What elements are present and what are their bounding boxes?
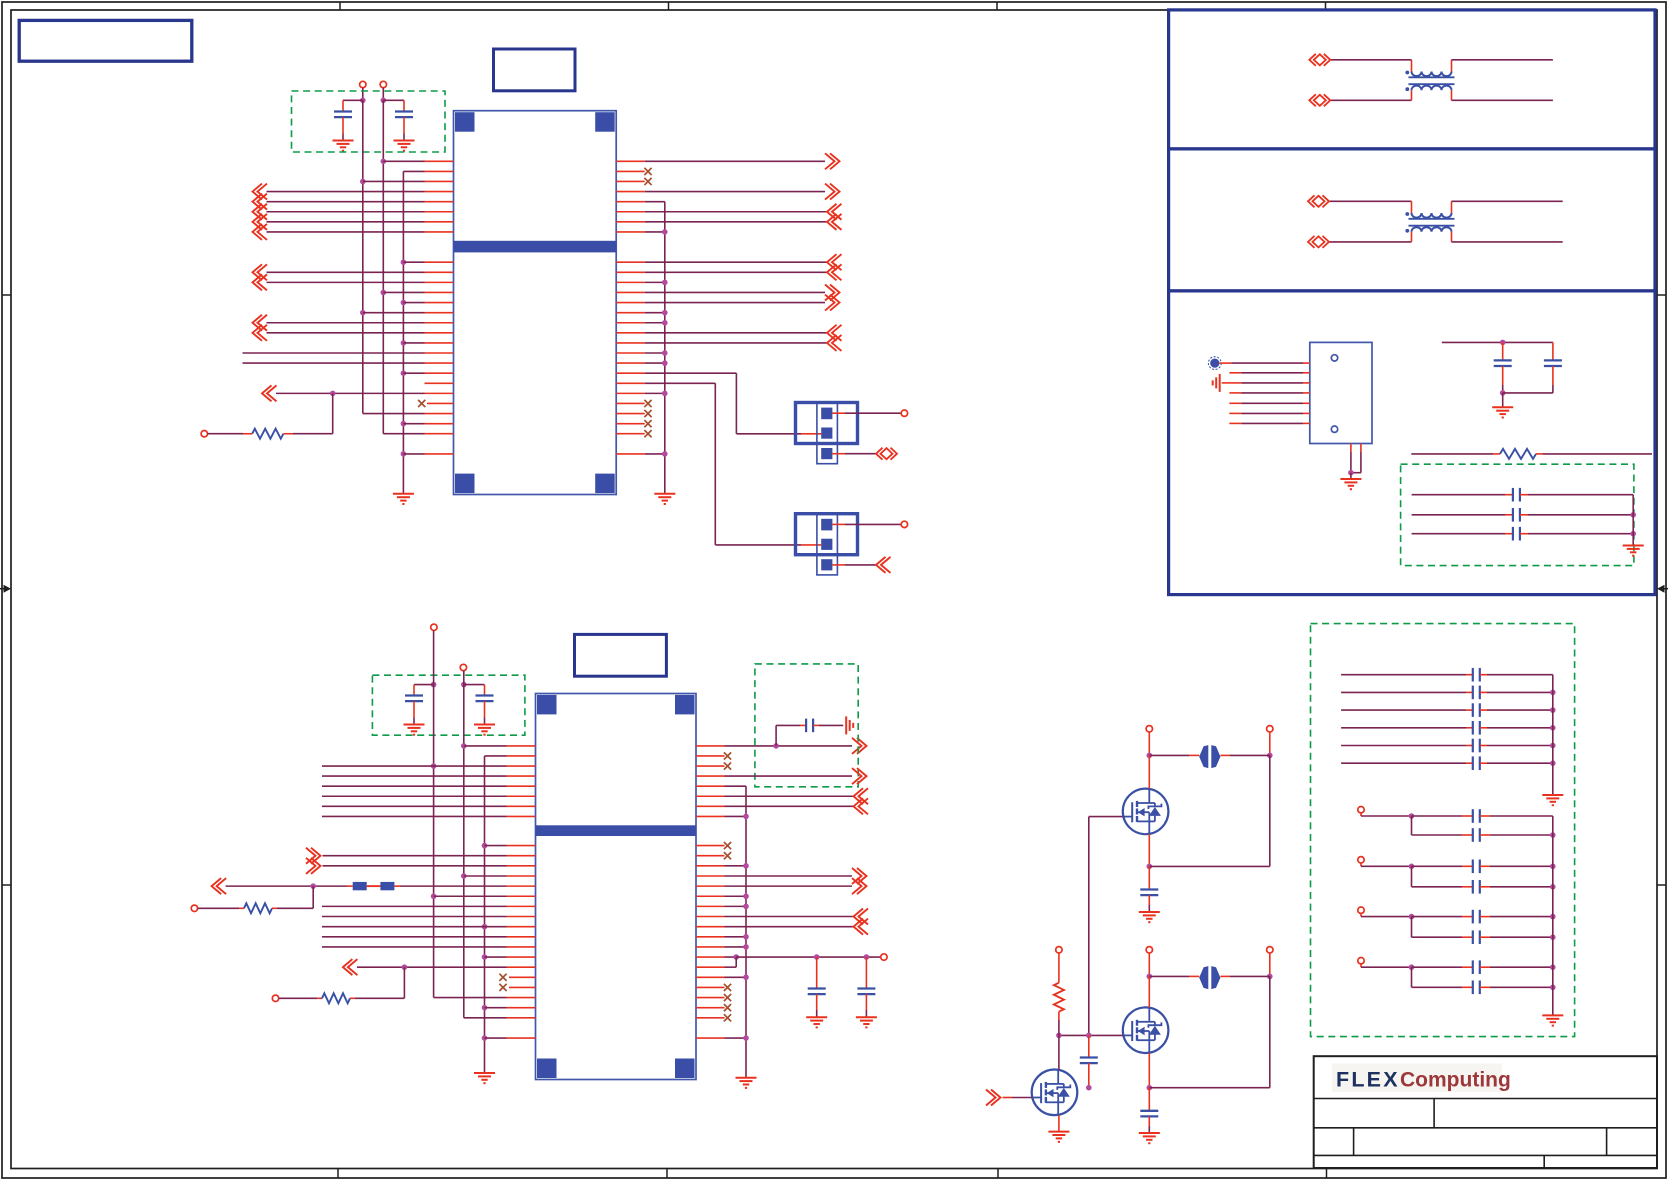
no-connect X IC2 R b15: [696, 994, 731, 1001]
port chevron IC1 L k23: [262, 385, 454, 401]
no-connect X IC2 R b1: [696, 852, 731, 859]
ground Q3: [1048, 1132, 1069, 1142]
wire b12 to resistor R3: [403, 967, 405, 998]
port chevron transformer top: [1308, 195, 1329, 207]
no-connect X IC1 R k26: [616, 420, 651, 427]
wire IC1 k21 to J1: [616, 373, 821, 434]
no-connect X IC1 R k25: [616, 410, 651, 417]
capacitor C4: [461, 682, 495, 735]
port chevron transformer bottom: [1309, 94, 1330, 106]
svg-text:Computing: Computing: [1400, 1069, 1511, 1092]
capacitor bank outline: [1311, 624, 1575, 1037]
capacitor bank series C row 1: [1341, 668, 1553, 682]
ground (IC1 left): [393, 494, 414, 504]
no-connect X IC1 L k24: [418, 400, 453, 407]
wire IC1 pin L k20: [243, 362, 454, 364]
wire IC2 pin L b0: [482, 843, 536, 849]
no-connect X IC1 R k27: [616, 430, 651, 437]
port chevron IC1 L group2 row2: [253, 274, 454, 290]
port chevron IC1 R k11: [616, 264, 841, 280]
wire Q3 source: [1058, 1115, 1060, 1132]
port chevron IC2 L b2: [306, 858, 536, 874]
no-connect X IC2 R b17: [696, 1014, 731, 1021]
border zone tick top 3: [996, 2, 998, 10]
wire bank bus 2: [1552, 816, 1554, 1015]
wire IC1 pin R k16: [616, 320, 667, 326]
no-connect X IC1 R k2: [616, 178, 651, 185]
capacitor coupling row 3: [1412, 527, 1636, 541]
border zone tick bottom 4: [1326, 1169, 1328, 1179]
port chevron IC1 L group3 row1: [253, 315, 454, 331]
wire IC2 pin L b6: [322, 905, 536, 907]
wire IC1 pin R k20: [616, 360, 667, 366]
port chevron IC1 R k17: [616, 325, 841, 341]
wire IC2 pin R b9: [696, 934, 749, 940]
wire CN1 pin row 1: [1219, 362, 1309, 364]
wire Q1 gate: [1089, 817, 1123, 1036]
port chevron IC2 R b3: [696, 868, 867, 884]
wire IC2 pin L b15: [507, 997, 536, 999]
wire IC2 pin L b10: [322, 946, 536, 948]
capacitor C2: [380, 81, 414, 150]
wire CN1 pin row 4: [1229, 392, 1309, 394]
transformer secondary winding: [1329, 227, 1563, 242]
wire IC1 pin L k2: [360, 179, 454, 185]
wire IC2 pin R m4: [696, 785, 725, 787]
border zone tick right 1: [1657, 294, 1666, 296]
no-connect X IC1 R k1: [616, 168, 651, 175]
wire IC2 R b11 net to output terminal: [696, 954, 887, 960]
port chevron IC1 R k0: [616, 153, 839, 169]
wire Q1 source loop: [1147, 755, 1270, 869]
sheet note box: [19, 20, 192, 61]
wire IC2 pin R m7: [696, 814, 749, 820]
chassis ground CN1: [1213, 374, 1230, 392]
logo FLEX Computing: [1332, 1064, 1511, 1093]
resistor R3: [272, 993, 404, 1003]
wire IC1 pin R k19: [616, 350, 667, 356]
wire bus A (IC1 left): [363, 100, 425, 413]
capacitor coupling row 2: [1412, 508, 1636, 522]
interface box 3: [1169, 291, 1655, 595]
decoupling group outline: [292, 91, 446, 152]
port chevron IC1 L group1 row4: [253, 214, 454, 230]
no-connect X IC2 R b16: [696, 1004, 731, 1011]
wire IC2 pin R b5: [696, 893, 749, 899]
port chevron IC2 R b7: [696, 909, 868, 925]
port chevron IC1 R k3: [616, 184, 839, 200]
border zone tick top 2: [668, 2, 670, 10]
capacitor C11: [1139, 1088, 1160, 1144]
capacitor bank series C row 5: [1341, 739, 1556, 753]
border zone tick left 2: [2, 884, 11, 886]
capacitor bank series C row 3: [1341, 703, 1556, 717]
wire IC2 pin R b10: [696, 944, 749, 950]
capacitor C8: [1442, 340, 1553, 408]
capacitor group 1 input terminal: [1358, 807, 1364, 817]
ground bank 2: [1542, 1015, 1563, 1025]
capacitor group 4 top row: [1361, 960, 1556, 974]
shield terminal dot: [1208, 357, 1221, 370]
IC U2 body: [536, 694, 697, 1080]
TVS diode D1: [1147, 745, 1273, 768]
wire IC2 pin R b6: [696, 904, 749, 910]
wire IC1 pin R k15: [616, 310, 667, 316]
wire bus C (IC1 left): [403, 171, 424, 493]
wire J1 pin3 out: [832, 448, 897, 460]
transistor Q2: [1123, 976, 1169, 1053]
AC coupling group outline: [1401, 464, 1634, 565]
wire Q2 gate node: [1056, 1033, 1123, 1039]
capacitor bank series C row 4: [1341, 721, 1556, 735]
IC U2 designator box: [575, 634, 667, 676]
wire IC2 pin L m1: [507, 755, 536, 757]
resistor R2: [191, 903, 313, 913]
wire IC2 pin R b12: [696, 957, 736, 967]
capacitor C6: [806, 957, 827, 1027]
wire IC1 pin R k7: [616, 229, 667, 235]
wire IC2 pin L b7: [322, 916, 536, 918]
wire IC2 pin R b2: [696, 863, 749, 869]
port chevron transformer bottom: [1308, 236, 1329, 248]
wire IC1 pin L k29: [401, 451, 454, 457]
border zone tick bottom 2: [666, 1169, 668, 1179]
ground coupling bus: [1623, 546, 1644, 556]
wire IC1 pin L k18: [401, 340, 454, 346]
capacitor C7: [856, 957, 877, 1027]
port chevron IC2 R b4: [696, 878, 867, 894]
wire IC1 pin L k15: [360, 310, 454, 316]
capacitor group 4 bottom row: [1412, 967, 1556, 994]
wire IC1 pin L k21: [401, 370, 454, 376]
svg-text:FLEX: FLEX: [1336, 1068, 1400, 1092]
wire IC2 pin L b17: [507, 1017, 536, 1019]
connector CN1: [1310, 342, 1372, 443]
wire bus F (IC2 left): [464, 671, 507, 1018]
wire CN1 pin row 2: [1229, 372, 1309, 374]
port chevron IC1 L group2 row1: [253, 264, 454, 280]
wire IC1 pin L k10: [401, 259, 454, 265]
wire IC1 pin L k14: [401, 300, 454, 306]
wire IC2 pin L b11: [482, 954, 536, 960]
wire IC2 pin L b19: [482, 1035, 536, 1041]
magnetics box 2: [1169, 149, 1655, 291]
resistor R1: [201, 429, 333, 439]
wire bank bus 1: [1552, 675, 1554, 795]
port chevron IC2 R m6: [696, 798, 868, 814]
terminal M1 right: [1267, 726, 1273, 756]
wire J2 pin3 out: [832, 557, 890, 573]
wire IC1 pin R k23: [616, 391, 667, 397]
border mid arrow right: [1657, 585, 1668, 593]
wire IC1 pin L k13: [381, 290, 454, 296]
port chevron IC2 R b8: [696, 919, 868, 935]
border zone tick left 1: [2, 294, 11, 296]
wire J1 pin1 out: [832, 410, 907, 416]
port chevron IC2 R m5: [696, 788, 868, 804]
port chevron transformer top: [1309, 54, 1330, 66]
transformer core: [1409, 219, 1455, 226]
capacitor group 4 input terminal: [1358, 958, 1364, 968]
ground (IC1 right): [654, 494, 675, 504]
wire bus G (IC2 left): [485, 756, 507, 1073]
capacitor group 3 top row: [1361, 910, 1556, 924]
wire IC1 pin R k4: [616, 201, 665, 203]
transformer primary winding: [1330, 60, 1553, 76]
capacitor group 2 top row: [1361, 860, 1556, 874]
wire IC1 pin L k19: [243, 352, 454, 354]
wire IC1 pin L k26: [401, 421, 454, 427]
no-connect X IC2 R b14: [696, 984, 731, 991]
transformer secondary winding: [1330, 86, 1553, 101]
no-connect X IC2 R m2: [696, 762, 731, 769]
wire bus D2 (IC2 right): [725, 786, 747, 1078]
wire b4 to resistor R2: [312, 886, 314, 908]
connector J1: [796, 403, 858, 464]
capacitor group 3 bottom row: [1412, 917, 1556, 944]
wire CN1 pin row 5: [1229, 402, 1309, 404]
port chevron IC1 R k10: [616, 254, 841, 270]
ground bank 1: [1542, 795, 1563, 805]
capacitor C3: [404, 682, 437, 735]
no-connect X IC2 L b13: [499, 974, 535, 981]
port chevron IC1 R k5: [616, 204, 841, 220]
wire J2 pin1 out: [832, 521, 907, 527]
wire CN1 pin row 6: [1229, 412, 1309, 414]
port chevron IC2 L b12: [343, 959, 536, 975]
wire IC2 pin L b5: [431, 893, 536, 899]
wire IC2 pin L m5: [322, 795, 536, 797]
capacitor group 1 top row: [1361, 809, 1553, 823]
wire bus B (IC1 left): [383, 100, 424, 433]
power terminal IC2 T2: [460, 664, 466, 670]
capacitor C12: [1080, 1035, 1098, 1090]
port chevron IC1 L group1 row1: [253, 184, 454, 200]
wire IC1 pin L k25: [425, 413, 454, 415]
no-connect X IC1 R k24: [616, 400, 651, 407]
transformer primary winding: [1329, 201, 1563, 217]
wire IC1 pin L k1: [425, 170, 454, 172]
port chevron IC1 L group1 row5: [253, 224, 454, 240]
capacitor coupling row 1: [1412, 488, 1634, 502]
IC U1 designator box: [494, 49, 576, 91]
capacitor C10: [1139, 866, 1160, 922]
wire IC2 pin L m2: [322, 763, 536, 769]
wire IC2 pin R b19: [696, 1035, 749, 1041]
wire IC2 pin R b13: [696, 974, 749, 980]
no-connect X IC2 R m1: [696, 752, 731, 759]
title block frame: [1314, 1056, 1657, 1168]
ground C8: [1492, 407, 1513, 417]
transformer core: [1409, 77, 1455, 84]
port chevron Q3 gate: [986, 1090, 1032, 1106]
port chevron IC1 L group1 row3: [253, 204, 454, 220]
wire bus E (IC2 left): [434, 631, 507, 998]
port chevron IC2 L b1: [306, 848, 536, 864]
terminal M2 right: [1267, 947, 1273, 977]
ground (IC2 right): [736, 1078, 757, 1088]
wire IC2 pin L m7: [322, 815, 536, 817]
port chevron IC2 L b4 with ferrite bead FB1: [212, 878, 536, 894]
capacitor C9: [1544, 342, 1562, 393]
capacitor group 2 bottom row: [1412, 866, 1556, 893]
border zone tick top 1: [339, 2, 341, 10]
resistor R5: [1054, 947, 1064, 1036]
wire k23 to resistor R1: [332, 393, 334, 433]
port chevron IC1 R k13: [616, 284, 839, 300]
wire bus D (IC1 right): [664, 202, 666, 494]
port chevron IC2 R m0 and capacitor C5: [696, 716, 867, 754]
power terminal IC2 T1: [431, 624, 437, 630]
capacitor group 1 bottom row: [1412, 816, 1556, 842]
port chevron IC2 R m3: [696, 768, 867, 784]
resistor R4: [1411, 449, 1652, 459]
wire IC1 pin L k0: [381, 159, 454, 165]
wire CN1 mounting legs: [1348, 444, 1361, 480]
wire IC2 pin L m4: [322, 785, 536, 787]
wire IC1 pin R k29: [616, 451, 667, 457]
ground CN1: [1340, 479, 1361, 489]
wire IC1 pin R k12: [616, 280, 667, 286]
wire Q2 source loop: [1147, 976, 1270, 1090]
capacitor bank series C row 2: [1341, 686, 1556, 700]
port chevron IC1 R k18: [616, 335, 841, 351]
transistor Q3: [1032, 1035, 1078, 1115]
wire IC2 pin L m0: [461, 743, 536, 749]
wire CN1 pin row 7: [1229, 422, 1309, 424]
border mid arrow left: [0, 585, 11, 593]
border zone tick bottom 1: [337, 1169, 339, 1179]
terminal M2 drain supply: [1146, 947, 1152, 977]
ground (IC2 left): [474, 1073, 495, 1083]
port chevron IC1 L group3 row2: [253, 325, 454, 341]
magnetics box 1: [1169, 10, 1655, 149]
TVS diode D2: [1147, 966, 1273, 989]
wire IC1 k22 to J2: [616, 383, 821, 545]
transistor Q1: [1123, 755, 1169, 834]
connector J2: [796, 514, 858, 575]
IC2 right coupling group outline: [755, 664, 858, 787]
port chevron IC1 L group1 row2: [253, 194, 454, 210]
border zone tick top 4: [1325, 2, 1327, 10]
wire IC1 pin L k27: [425, 433, 454, 435]
capacitor C1: [333, 81, 366, 150]
border zone tick bottom 3: [997, 1169, 999, 1179]
wire coupling bus to ground: [1632, 495, 1634, 546]
no-connect X IC2 R b0: [696, 842, 731, 849]
wire IC2 pin L b8: [322, 924, 536, 930]
wire IC1 pin L k22 stub: [425, 382, 454, 384]
capacitor group 3 input terminal: [1358, 907, 1364, 917]
border zone tick right 2: [1657, 884, 1666, 886]
no-connect X IC2 L b14: [499, 984, 535, 991]
wire IC2 pin L b9: [322, 936, 536, 938]
port chevron IC1 R k14: [616, 295, 839, 311]
capacitor bank series C row 6: [1341, 756, 1556, 770]
wire IC2 pin L b16: [482, 1005, 536, 1011]
wire IC2 pin L m6: [322, 805, 536, 807]
wire CN1 pin row 3: [1229, 382, 1309, 384]
capacitor group 2 input terminal: [1358, 857, 1364, 867]
decoupling group outline IC2: [372, 675, 525, 735]
port chevron IC1 R k6: [616, 214, 841, 230]
wire IC2 pin L m3: [322, 775, 536, 777]
terminal M1 drain supply: [1146, 726, 1152, 756]
IC U1 body: [454, 111, 617, 495]
wire IC2 pin L b3: [461, 873, 536, 879]
